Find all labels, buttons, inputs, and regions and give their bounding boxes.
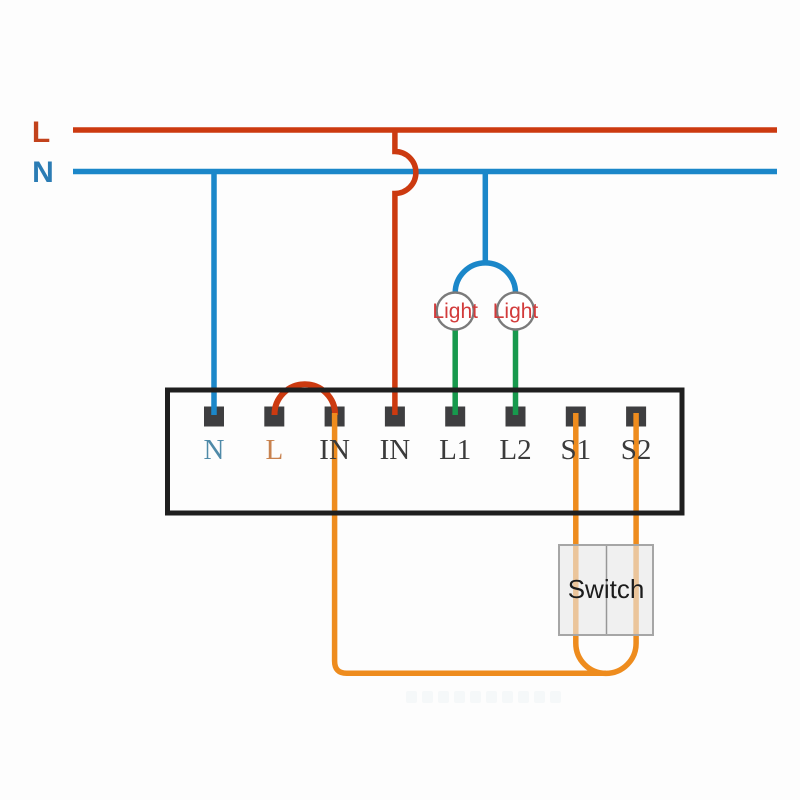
- terminal L1: [445, 407, 465, 427]
- svg-text:L1: L1: [439, 434, 471, 466]
- switch box SW1: [559, 545, 653, 635]
- svg-text:L: L: [32, 116, 50, 149]
- wire live drop with hop over N to terminal IN2: [395, 130, 416, 415]
- svg-text:Light: Light: [432, 300, 478, 323]
- wire neutral drop to terminal N: [211, 172, 217, 416]
- terminal L2: [506, 407, 526, 427]
- terminal IN1: [325, 407, 345, 427]
- svg-text:Switch: Switch: [568, 574, 645, 604]
- svg-text:S1: S1: [560, 434, 591, 466]
- wire green lamp2 to L2: [513, 329, 519, 415]
- terminal L: [264, 407, 284, 427]
- wire orange IN1 to switch loop: [335, 413, 606, 673]
- svg-text:N: N: [204, 434, 225, 466]
- terminal IN2: [385, 407, 405, 427]
- svg-text:S2: S2: [621, 434, 652, 466]
- svg-text:IN: IN: [380, 434, 411, 466]
- svg-text:Light: Light: [493, 300, 539, 323]
- relay box U1: [168, 390, 683, 513]
- wire neutral bus N: [73, 169, 777, 175]
- lamp 2 circle: [497, 293, 534, 330]
- svg-text:IN: IN: [319, 434, 350, 466]
- wire jumper L to IN1: [275, 384, 336, 415]
- lamp 1 circle: [437, 293, 474, 330]
- wire green lamp1 to L1: [452, 329, 458, 415]
- switch box divider: [606, 546, 608, 634]
- svg-text:L: L: [265, 434, 283, 466]
- wire orange S1-S2 U loop: [576, 413, 636, 673]
- terminal N: [204, 407, 224, 427]
- faint watermark row: [406, 691, 561, 703]
- terminal S2: [626, 407, 646, 427]
- wire live bus L: [73, 127, 777, 133]
- svg-text:N: N: [32, 156, 54, 189]
- svg-text:L2: L2: [499, 434, 531, 466]
- wire lamp arc: [455, 263, 515, 293]
- terminal S1: [566, 407, 586, 427]
- wire neutral drop to lamp arc: [483, 172, 489, 264]
